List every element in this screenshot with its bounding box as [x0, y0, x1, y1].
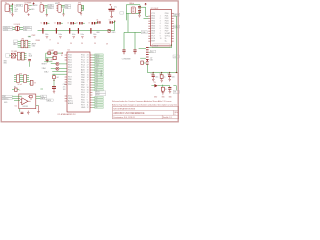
out label box a — [41, 95, 47, 97]
svg-text:10: 10 — [160, 38, 162, 40]
svg-text:X1: X1 — [5, 3, 7, 5]
svg-text:GND2: GND2 — [48, 7, 53, 9]
wires F1 — [13, 27, 23, 29]
svg-text:GATE: GATE — [47, 99, 51, 102]
frame border — [1, 1, 178, 122]
svg-text:PD6: PD6 — [68, 72, 72, 74]
svg-text:VIN: VIN — [28, 37, 32, 39]
svg-text:47u: 47u — [114, 6, 117, 8]
ref box MOSI — [95, 91, 105, 93]
svg-text:D8: D8 — [95, 107, 97, 109]
wire stack label — [149, 51, 151, 53]
label box left of loop — [120, 12, 124, 15]
svg-text:MISO2: MISO2 — [174, 15, 179, 17]
svg-text:XTAL2: XTAL2 — [142, 31, 147, 34]
svg-text:100n: 100n — [81, 34, 85, 36]
svg-text:USBVCC: USBVCC — [2, 98, 9, 100]
connector X1 (USB) — [5, 4, 11, 12]
IC3 left pins — [148, 16, 150, 41]
cap CX1 — [138, 6, 141, 8]
svg-text:LMV358: LMV358 — [22, 106, 28, 108]
node rail r4 — [176, 72, 177, 73]
connector X2 power jack — [25, 4, 30, 12]
label box X4 b — [65, 7, 71, 9]
svg-text:RESET: RESET — [49, 50, 54, 52]
IC1 right pin numbers — [87, 55, 89, 110]
svg-text:D4: D4 — [95, 97, 97, 99]
reset switch S1 — [53, 56, 56, 59]
svg-text:CE6: CE6 — [63, 84, 66, 86]
svg-text:D6: D6 — [95, 102, 97, 104]
svg-text:1u: 1u — [164, 76, 166, 78]
title block box — [113, 106, 179, 118]
node USBVCC — [12, 3, 13, 4]
label box GND right — [23, 29, 32, 31]
svg-text:UGND: UGND — [3, 29, 9, 31]
svg-text:100n: 100n — [172, 76, 175, 78]
svg-text:R4: R4 — [57, 77, 59, 79]
svg-text:C32: C32 — [167, 74, 170, 76]
svg-text:PB2: PB2 — [68, 84, 72, 86]
svg-text:F1 501K: F1 501K — [14, 24, 21, 26]
label box SCK2 — [174, 25, 180, 28]
label box TXL — [173, 90, 179, 93]
svg-text:19: 19 — [87, 70, 89, 72]
input label box VUSB — [2, 98, 12, 100]
wire below IC3 — [149, 44, 172, 48]
svg-text:A4: A4 — [14, 42, 16, 45]
node rail r1 — [153, 72, 154, 73]
svg-text:30: 30 — [61, 55, 63, 57]
reset pullup RN1 — [48, 52, 51, 55]
IC3 right pins — [172, 14, 174, 41]
capacitor C4 — [122, 50, 125, 51]
svg-text:23: 23 — [87, 55, 89, 57]
led TX box — [30, 80, 33, 85]
svg-text:100n: 100n — [59, 34, 63, 36]
svg-text:R: R — [50, 39, 52, 41]
svg-text:IC1 ATMEGA328P-PU: IC1 ATMEGA328P-PU — [58, 113, 77, 116]
svg-text:28: 28 — [87, 67, 89, 69]
reset diode D2 — [54, 52, 57, 55]
svg-text:15: 15 — [87, 75, 89, 77]
svg-text:USB-B: USB-B — [153, 46, 158, 48]
svg-text:10: 10 — [87, 102, 89, 104]
cap C11 — [29, 61, 31, 66]
svg-text:AREF: AREF — [32, 42, 36, 45]
IC3 lower pin stack — [146, 47, 149, 64]
red 5V marks row — [57, 43, 109, 46]
node rail r2 — [161, 72, 162, 73]
svg-text:100n: 100n — [72, 34, 76, 36]
svg-text:UID: UID — [15, 11, 19, 13]
title block vline sheet — [161, 115, 163, 119]
svg-text:AREF: AREF — [68, 102, 74, 105]
node rail r3 — [169, 72, 170, 73]
svg-text:N/B: DERIVATIVE WORKS: N/B: DERIVATIVE WORKS — [113, 107, 135, 110]
input label box CMP — [2, 95, 12, 97]
svg-text:GND: GND — [3, 61, 7, 63]
svg-text:D-: D- — [15, 7, 17, 9]
connector X3 — [40, 4, 45, 12]
wire rowB — [9, 54, 17, 56]
wire xtal caps bus — [124, 32, 141, 49]
svg-text:25: 25 — [87, 60, 89, 62]
crystal Q1 vertical — [131, 7, 135, 13]
node rail mid — [109, 30, 110, 31]
rowA label box b — [14, 43, 18, 45]
red cap designators above rail — [40, 20, 110, 25]
svg-text:D0: D0 — [95, 87, 97, 89]
svg-text:24: 24 — [87, 57, 89, 59]
svg-text:GND: GND — [162, 96, 165, 98]
svg-text:RN2: RN2 — [19, 73, 22, 75]
connector JP7 dual column — [17, 52, 24, 60]
ground X4 — [62, 14, 64, 16]
title block hline 2 — [113, 114, 179, 116]
svg-text:GND: GND — [15, 9, 19, 11]
LED D4 — [154, 84, 157, 87]
svg-text:GND: GND — [112, 32, 116, 34]
JP7 pin wires — [20, 53, 26, 59]
svg-text:R3: R3 — [14, 86, 16, 88]
resistor RB — [161, 87, 164, 91]
label box M7 a — [48, 4, 54, 6]
cap CB — [168, 88, 171, 90]
svg-text:16MHz: 16MHz — [129, 3, 134, 5]
svg-text:PWRIN: PWRIN — [32, 5, 38, 7]
wire stack to rail — [146, 64, 148, 72]
crystal loop wire — [126, 5, 140, 20]
IC1 right wires — [92, 55, 94, 108]
cap CR1 — [152, 73, 154, 75]
JP6 pin wires — [18, 41, 31, 47]
resistor R4 — [53, 74, 55, 76]
svg-text:RN4B: RN4B — [36, 40, 40, 42]
ground CX — [138, 12, 141, 17]
svg-text:Y2 16M: Y2 16M — [11, 51, 17, 53]
cap CR2 box — [161, 73, 163, 75]
op-amp feedback parts — [29, 95, 32, 97]
label box +5V right — [173, 55, 179, 58]
svg-text:GND: GND — [3, 63, 7, 65]
svg-text:D7: D7 — [95, 105, 97, 107]
capacitor PC1 polarized vertical — [108, 4, 114, 18]
svg-text:C10: C10 — [50, 59, 53, 61]
below box: cap — [19, 109, 21, 112]
svg-text:31: 31 — [87, 90, 89, 92]
svg-text:C31: C31 — [159, 74, 162, 76]
svg-text:GND: GND — [31, 9, 35, 11]
svg-text:XTAL2: XTAL2 — [44, 70, 49, 73]
svg-text:GND: GND — [154, 96, 157, 98]
wire X2 to VIN — [29, 5, 32, 9]
svg-text:MISO: MISO — [96, 94, 101, 96]
svg-text:X2 PWR: X2 PWR — [24, 3, 32, 5]
cap CE6 polarized — [53, 79, 55, 86]
svg-text:3: 3 — [174, 114, 175, 116]
gray labels left of MCU — [42, 63, 49, 73]
IC1 left pins — [65, 55, 67, 101]
wire IC3 to label MISO2 — [174, 15, 177, 17]
svg-text:GND: GND — [24, 29, 28, 31]
resistor R5 — [141, 61, 144, 64]
svg-text:JP3: JP3 — [78, 3, 81, 5]
svg-text:SCL: SCL — [29, 54, 32, 56]
net label texts — [95, 54, 99, 109]
op-amp U1 triangle — [22, 98, 28, 105]
wires d3 — [51, 67, 67, 69]
label box gate out lower — [47, 99, 54, 101]
capacitor C5 — [134, 32, 136, 49]
svg-text:USB: USB — [150, 60, 153, 62]
decoupling unit 1: cap C1 — [42, 22, 49, 39]
connector JP6 dual column — [21, 40, 28, 48]
wire reset to MCU — [60, 52, 63, 54]
IC1 right pins — [90, 55, 92, 108]
label box X4 a — [65, 4, 71, 6]
svg-text:C30: C30 — [151, 74, 154, 76]
label box M7 b — [48, 7, 54, 9]
diode D1 — [56, 62, 59, 65]
IC3 pin names — [151, 13, 170, 43]
svg-text:D13: D13 — [95, 80, 98, 82]
svg-text:100n: 100n — [45, 34, 49, 36]
node stack — [147, 60, 148, 61]
svg-text:XTAL1: XTAL1 — [42, 67, 47, 70]
IC3 USB interface box — [151, 10, 172, 46]
wire stub left — [40, 88, 43, 90]
label box XUSB — [16, 4, 22, 6]
wires lower right — [161, 85, 177, 91]
wire crystal to IC3 — [128, 7, 148, 32]
svg-text:ARDUINO UNO REFERENCE: ARDUINO UNO REFERENCE — [113, 112, 145, 115]
title block vline rev — [173, 110, 175, 115]
svg-text:IC1: IC1 — [67, 50, 70, 52]
svg-text:GND: GND — [169, 96, 172, 98]
resistor R3 — [15, 88, 18, 91]
cap CR3 — [169, 73, 171, 75]
svg-text:32: 32 — [87, 92, 89, 94]
resistor R small below rail — [108, 29, 110, 32]
rowB label box — [6, 54, 10, 57]
IC3 pin numbers column — [160, 16, 162, 40]
svg-text:GND: GND — [96, 32, 100, 34]
label box stack a — [150, 50, 156, 53]
wire X1 shield net — [11, 4, 13, 12]
svg-text:TX: TX — [34, 82, 36, 84]
svg-text:Feuille: 1/1: Feuille: 1/1 — [163, 117, 172, 119]
svg-text:SCL: SCL — [95, 67, 98, 69]
X5 pins wires — [81, 5, 83, 10]
wires into opamp — [12, 96, 21, 100]
decoupling unit 2: cap C2 — [56, 22, 63, 39]
ground X5 — [80, 12, 82, 15]
svg-text:L: L — [20, 90, 21, 92]
svg-text:GND: GND — [32, 45, 36, 47]
svg-text:IC3 16U2: IC3 16U2 — [151, 8, 159, 10]
reset wires — [46, 53, 60, 60]
wires d1 — [51, 63, 67, 65]
svg-text:11: 11 — [87, 105, 89, 107]
label box XTAL2 — [141, 31, 147, 34]
wires X3 out — [45, 5, 48, 14]
svg-text:C1: C1 — [40, 23, 42, 25]
svg-text:5V: 5V — [106, 43, 109, 45]
svg-text:Dessinateur: R.G. 11/11/11: Dessinateur: R.G. 11/11/11 — [113, 116, 134, 119]
resonator Y2 — [11, 53, 15, 58]
resistor network RN2 — [17, 75, 27, 83]
svg-text:C8: C8 — [96, 20, 98, 22]
net label boxes right of IC1 — [95, 54, 103, 109]
svg-text:26: 26 — [87, 62, 89, 64]
svg-text:C3: C3 — [67, 23, 69, 25]
label box MISO2 — [174, 13, 180, 16]
svg-text:100n: 100n — [155, 76, 158, 78]
cap C8 — [96, 21, 101, 23]
svg-text:JP6: JP6 — [21, 39, 24, 41]
svg-text:1K x4: 1K x4 — [18, 84, 22, 86]
svg-text:5V: 5V — [81, 43, 84, 45]
node reset — [53, 53, 54, 54]
ground X1 — [11, 13, 13, 17]
wire +5V drop to rail — [114, 21, 116, 30]
svg-text:100n: 100n — [93, 34, 97, 36]
ground RB — [162, 91, 165, 95]
cap C9 — [110, 21, 115, 23]
title block hline 1 — [113, 109, 179, 111]
svg-text:VCC: VCC — [151, 51, 155, 53]
decoupling unit 5: cap C7 — [90, 22, 97, 39]
svg-text:SH: SH — [9, 13, 11, 15]
wires r3 — [12, 89, 19, 91]
svg-text:47u: 47u — [63, 87, 66, 89]
label box VUSB right — [23, 26, 32, 28]
svg-text:DESIGN: DESIGN — [101, 70, 103, 76]
svg-text:C7: C7 — [88, 23, 90, 25]
node below R4 — [53, 80, 54, 81]
below box: ground — [27, 111, 30, 115]
+5V arrow node — [145, 3, 147, 5]
svg-text:Released under the Creative Co: Released under the Creative Commons Attr… — [112, 100, 172, 103]
out label box b — [41, 97, 47, 99]
op-amp pin stubs — [20, 99, 31, 102]
label box USBVCC — [3, 26, 12, 28]
svg-text:GND: GND — [4, 102, 8, 104]
svg-text:C2: C2 — [54, 23, 56, 25]
svg-text:16: 16 — [87, 77, 89, 79]
ground right of box — [37, 105, 40, 113]
supply +VIN arrow — [33, 3, 35, 6]
svg-text:17: 17 — [87, 80, 89, 82]
svg-text:5V: 5V — [57, 43, 60, 45]
IC1 pin names — [68, 55, 86, 110]
ref box MISO — [95, 93, 105, 95]
svg-text:1K: 1K — [165, 89, 167, 91]
wires X4 out — [61, 5, 65, 14]
label frame below IC3 — [152, 44, 170, 48]
diode D3 — [56, 67, 59, 70]
svg-text:X3: X3 — [40, 3, 42, 5]
+5V power rail — [38, 30, 115, 32]
svg-text:XT1: XT1 — [95, 82, 98, 84]
svg-text:+5V: +5V — [150, 57, 153, 59]
RN2 pin wires — [14, 76, 29, 82]
cap C10 — [46, 58, 48, 62]
svg-text:XT2: XT2 — [95, 85, 98, 87]
svg-text:C9: C9 — [109, 20, 111, 22]
svg-text:RESET: RESET — [42, 63, 47, 65]
node pin mark before MCU — [61, 52, 63, 53]
MCU IC1 box — [67, 52, 90, 112]
svg-text:D5: D5 — [95, 100, 97, 102]
svg-text:5V: 5V — [70, 43, 73, 45]
svg-text:D1: D1 — [95, 90, 97, 92]
led TX wire — [29, 82, 30, 84]
fuse F1 — [15, 26, 20, 31]
svg-text:PB6: PB6 — [65, 7, 68, 9]
svg-text:22: 22 — [87, 72, 89, 74]
wire c10 node — [44, 61, 52, 63]
svg-text:D11: D11 — [95, 75, 98, 77]
svg-text:30: 30 — [87, 87, 89, 89]
svg-text:PWR: PWR — [32, 35, 37, 37]
svg-text:TXL: TXL — [174, 92, 177, 94]
decoupling unit 3: cap C3 — [69, 22, 76, 39]
svg-text:ON: ON — [154, 82, 156, 84]
ground X2 — [28, 13, 30, 15]
cap CX2 — [138, 11, 141, 13]
svg-text:GND: GND — [81, 107, 86, 109]
svg-text:X4: X4 — [58, 3, 60, 5]
ground X3 — [46, 14, 48, 16]
op-amp section box — [19, 94, 36, 109]
connector X5 — [78, 4, 81, 12]
svg-text:D12: D12 — [95, 77, 98, 79]
svg-text:27: 27 — [87, 65, 89, 67]
svg-text:IC2: IC2 — [15, 105, 18, 107]
svg-text:16V: 16V — [63, 89, 66, 91]
svg-text:XUSB: XUSB — [17, 5, 21, 7]
wires out of opamp — [36, 96, 41, 98]
wires into stack — [139, 49, 146, 63]
rowA label box a — [14, 40, 18, 42]
svg-text:CONSOMM: CONSOMM — [122, 59, 131, 61]
wire right vertical bus — [175, 16, 177, 72]
label box UGND — [3, 29, 12, 31]
node +5V top — [114, 21, 115, 22]
svg-text:12: 12 — [87, 107, 89, 109]
wires xtal to MCU — [52, 72, 67, 75]
svg-text:5V: 5V — [94, 43, 97, 45]
svg-text:C6: C6 — [76, 23, 78, 25]
right +5V rail — [147, 72, 177, 74]
decoupling unit 4: cap C6 — [78, 22, 85, 39]
